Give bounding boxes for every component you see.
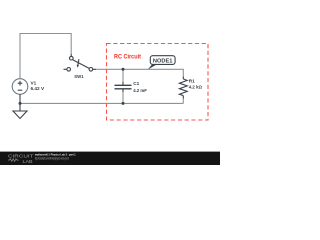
svg-text:C1: C1	[133, 81, 139, 86]
svg-text:LAB: LAB	[23, 159, 33, 164]
svg-text:RC Circuit: RC Circuit	[114, 53, 141, 60]
svg-text:NODE1: NODE1	[153, 59, 173, 65]
svg-text:http://circuitlab.com/c/4hw6u/: http://circuitlab.com/c/4hw6u/physics-la…	[35, 156, 69, 160]
svg-text:4.2 kΩ: 4.2 kΩ	[189, 85, 202, 90]
svg-text:R1: R1	[189, 78, 195, 83]
svg-text:6.42 V: 6.42 V	[31, 86, 45, 91]
svg-text:SW1: SW1	[74, 74, 84, 79]
svg-text:4.2 mF: 4.2 mF	[133, 88, 147, 93]
